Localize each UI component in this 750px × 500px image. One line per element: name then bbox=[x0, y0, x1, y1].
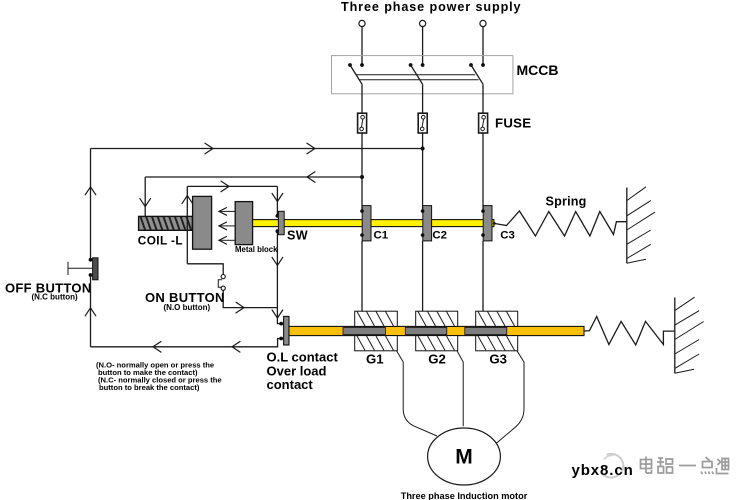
svg-text:C2: C2 bbox=[432, 230, 447, 242]
wire: left riser (lower part) bbox=[90, 275, 92, 347]
MCCB switch pole 2 bbox=[409, 63, 425, 84]
C2 terminal dots bbox=[421, 209, 425, 237]
node: armature bar / spring attach bbox=[493, 222, 496, 225]
supply terminal L1 bbox=[359, 20, 365, 26]
svg-text:C1: C1 bbox=[374, 230, 389, 242]
notes text (N.O / N.C explanation) bbox=[96, 360, 222, 392]
svg-text:contact: contact bbox=[267, 377, 314, 392]
fuse F1 bbox=[358, 113, 367, 133]
OFF button terminal (top) bbox=[89, 258, 93, 262]
wire L3 MCCB to fuse F3 bbox=[482, 84, 484, 113]
svg-text:MCCB: MCCB bbox=[517, 62, 559, 78]
arrow right on control return wire bbox=[205, 143, 213, 154]
node: L1 / coil-wire junction bbox=[360, 175, 364, 179]
MCCB enclosure bbox=[332, 56, 513, 94]
heater G2 upper box (hatched) bbox=[416, 311, 458, 326]
OFF button contact bar bbox=[93, 258, 98, 280]
C1 terminal dots bbox=[360, 209, 364, 237]
svg-text:O.L contact: O.L contact bbox=[267, 350, 339, 365]
upper anchor wall bbox=[627, 187, 655, 263]
lower spring bbox=[584, 317, 675, 346]
wire L2 supply to MCCB bbox=[422, 27, 424, 65]
force arrow metal block to plunger (top) bbox=[219, 208, 235, 216]
svg-text:FUSE: FUSE bbox=[495, 116, 531, 131]
motor lead wire from G3 bbox=[496, 351, 525, 444]
wire L2 fuse to contact C2 bbox=[422, 133, 424, 211]
svg-text:(N.C button): (N.C button) bbox=[32, 293, 79, 302]
node: SW upper terminal bbox=[276, 214, 280, 218]
motor M body bbox=[428, 428, 501, 485]
contactor armature bar (yellow) bbox=[253, 220, 494, 227]
wire: SW riser upper bbox=[276, 186, 278, 216]
svg-text:ybx8.cn: ybx8.cn bbox=[572, 462, 634, 479]
MCCB switch pole 3 bbox=[469, 63, 485, 84]
heater G3 lower box (hatched) bbox=[476, 336, 518, 351]
wire: coil top horizontal to SW riser bbox=[187, 185, 277, 187]
arrow up on left riser bbox=[85, 187, 96, 195]
contact C3 block bbox=[483, 206, 492, 241]
wire L1 fuse to contact C1 bbox=[361, 133, 363, 211]
bimetal gray segment 1 bbox=[343, 327, 385, 334]
arrow down on SW riser above O.L bbox=[272, 310, 283, 318]
wire: SW riser lower to O.L contact bbox=[277, 231, 281, 323]
wire L3 fuse to contact C3 bbox=[482, 133, 484, 211]
wire L2 MCCB to fuse F2 bbox=[422, 84, 424, 113]
heater G1 lower box (hatched) bbox=[355, 336, 398, 351]
contact C2 block bbox=[423, 206, 432, 241]
svg-text:Over load: Over load bbox=[267, 363, 327, 378]
wire: coil bottom jog to ON button bbox=[187, 264, 223, 275]
supply terminal L2 bbox=[420, 20, 426, 26]
svg-text:(N.O button): (N.O button) bbox=[164, 303, 211, 312]
svg-text:Metal block: Metal block bbox=[235, 245, 278, 254]
MCCB switch pole 1 bbox=[348, 63, 364, 84]
force arrow metal block to plunger (bottom) bbox=[219, 237, 235, 245]
O.L contact slider bar bbox=[284, 316, 289, 345]
arrow up on lower left riser bbox=[85, 308, 96, 316]
svg-text:SW: SW bbox=[287, 228, 308, 242]
arrow right on coil top wire bbox=[221, 181, 229, 192]
ON button actuator bracket bbox=[218, 280, 222, 287]
bimetal gray segment 2 bbox=[405, 327, 447, 334]
svg-text:M: M bbox=[455, 446, 473, 469]
OFF button actuator shaft bbox=[68, 267, 93, 269]
arrow down toward coil bbox=[140, 199, 151, 207]
motor lead wire from G1 bbox=[397, 351, 438, 436]
overload armature bar (golden yellow) bbox=[289, 326, 584, 335]
arrow down on SW riser bbox=[272, 194, 283, 202]
lower anchor wall bbox=[675, 297, 704, 373]
logo Chinese characters (dian lu yi dian tong) bbox=[641, 457, 729, 475]
wire L1 MCCB to fuse F1 bbox=[361, 84, 363, 113]
motor lead wire from G2 bbox=[457, 351, 463, 427]
wire L3 contact C3 to heater G3 bbox=[482, 241, 484, 311]
svg-text:G1: G1 bbox=[366, 352, 384, 367]
arrow up on coil riser bbox=[182, 196, 193, 204]
node: SW lower terminal bbox=[276, 229, 280, 233]
C3 terminal dots bbox=[481, 209, 485, 237]
metal block bbox=[235, 202, 252, 245]
wire: drop to coil bbox=[144, 177, 146, 216]
svg-text:Three phase power supply: Three phase power supply bbox=[341, 0, 521, 14]
wire: ON button to SW riser bbox=[223, 290, 277, 307]
armature plunger (gray block) bbox=[193, 196, 212, 249]
svg-text:button to break the contact): button to break the contact) bbox=[99, 383, 200, 392]
wire: left riser (upper part) bbox=[90, 149, 92, 260]
svg-text:G2: G2 bbox=[428, 352, 446, 367]
supply terminal L3 bbox=[480, 20, 486, 26]
O.L contact terminal (bottom) bbox=[279, 337, 283, 341]
wire L2 contact C2 to heater G2 bbox=[422, 241, 424, 311]
contact C1 block bbox=[362, 206, 371, 241]
bimetal gray segment 3 bbox=[465, 327, 507, 334]
OFF button actuator cap bbox=[67, 262, 69, 275]
wire L1 supply to MCCB bbox=[361, 27, 363, 65]
svg-text:COIL -L: COIL -L bbox=[138, 233, 183, 247]
ON button upper contact circle bbox=[221, 275, 225, 279]
heater G1 upper box (hatched) bbox=[355, 311, 398, 326]
fuse F2 bbox=[418, 113, 427, 133]
svg-text:Spring: Spring bbox=[546, 195, 587, 209]
arrow left on bottom return wire bbox=[232, 342, 240, 353]
arrow left on L1-coil wire bbox=[307, 172, 315, 183]
coil COIL-L (hatched body) bbox=[139, 216, 193, 230]
OFF button terminal (bottom) bbox=[89, 273, 93, 277]
O.L contact terminal (top) bbox=[279, 322, 283, 326]
arrow right on ON button wire bbox=[236, 302, 244, 313]
svg-text:C3: C3 bbox=[500, 230, 515, 242]
MCCB linkage bar bbox=[356, 75, 478, 80]
fuse F3 bbox=[479, 113, 488, 133]
heater G2 lower box (hatched) bbox=[416, 336, 458, 351]
wire: L1 to coil (horizontal) bbox=[145, 176, 362, 178]
SW slider block bbox=[278, 211, 284, 234]
svg-text:Three phase Induction motor: Three phase Induction motor bbox=[401, 491, 528, 500]
O.L contact label bbox=[267, 350, 339, 393]
arrow down on SW riser lower bbox=[272, 257, 283, 265]
arrow left on bottom return wire bbox=[153, 342, 161, 353]
wire: coil circuit riser (through coil) bbox=[186, 186, 188, 263]
arrow right on control return wire bbox=[307, 143, 315, 154]
logo swirl bbox=[601, 454, 623, 478]
wire: control return to L2 (top horizontal) bbox=[91, 148, 423, 150]
heater G3 upper box (hatched) bbox=[476, 311, 518, 326]
force arrow metal block to plunger (middle) bbox=[219, 222, 235, 230]
wire L3 supply to MCCB bbox=[482, 27, 484, 65]
node: L2 / control-wire junction bbox=[421, 147, 425, 151]
ON button lower contact circle bbox=[221, 286, 225, 290]
wire L1 contact C1 to heater G1 bbox=[361, 241, 363, 311]
wire: bottom return bbox=[91, 339, 282, 347]
svg-text:G3: G3 bbox=[489, 352, 507, 367]
upper spring bbox=[494, 211, 628, 236]
